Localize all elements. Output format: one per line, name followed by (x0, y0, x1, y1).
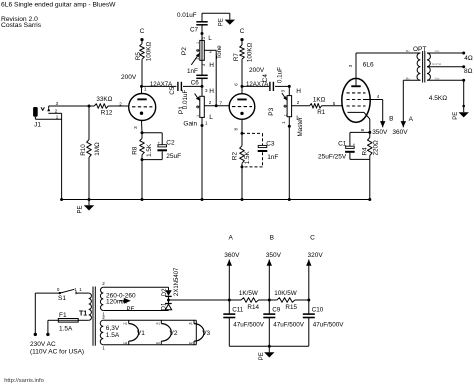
svg-text:B: B (270, 235, 274, 242)
svg-text:220Ω: 220Ω (373, 140, 380, 156)
svg-text:350V: 350V (372, 129, 388, 136)
svg-text:47uF/500V: 47uF/500V (313, 322, 345, 329)
svg-text:A: A (409, 116, 414, 123)
svg-text:3: 3 (196, 58, 200, 60)
svg-text:320V: 320V (308, 252, 324, 259)
svg-text:100KΩ: 100KΩ (145, 41, 152, 61)
svg-text:200V: 200V (121, 74, 137, 81)
svg-text:R4: R4 (362, 147, 369, 156)
svg-text:C2: C2 (166, 140, 175, 147)
svg-text:C7: C7 (190, 27, 199, 34)
svg-text:R1: R1 (317, 109, 326, 116)
svg-text:C: C (240, 28, 245, 35)
svg-text:25uF/25V: 25uF/25V (318, 153, 347, 160)
svg-text:1.5A: 1.5A (106, 332, 120, 339)
svg-text:Grn/Yel: Grn/Yel (432, 62, 442, 66)
svg-text:C3: C3 (266, 141, 275, 148)
svg-text:C11: C11 (232, 306, 244, 313)
svg-text:Grn: Grn (435, 49, 440, 53)
svg-text:4Ω: 4Ω (464, 55, 473, 62)
svg-text:25uF: 25uF (166, 153, 181, 160)
svg-text:V1: V1 (137, 330, 145, 337)
svg-text:C5: C5 (169, 86, 176, 95)
svg-text:B: B (389, 115, 393, 122)
svg-text:H1: H1 (189, 321, 193, 325)
svg-text:1KΩ: 1KΩ (313, 97, 326, 104)
svg-text:http://sarris.info: http://sarris.info (4, 378, 44, 384)
svg-text:4.5KΩ: 4.5KΩ (429, 95, 447, 102)
svg-text:R10: R10 (80, 144, 87, 156)
svg-text:(110V AC for USA): (110V AC for USA) (30, 348, 84, 355)
svg-text:6L6: 6L6 (363, 61, 374, 68)
svg-text:S1: S1 (58, 295, 66, 302)
svg-text:R12: R12 (101, 110, 113, 117)
svg-text:C: C (310, 235, 315, 242)
svg-text:R2: R2 (231, 152, 238, 161)
svg-text:2X1N5407: 2X1N5407 (174, 267, 180, 296)
svg-text:360V: 360V (224, 252, 240, 259)
svg-text:230V AC: 230V AC (30, 341, 56, 348)
svg-text:47uF/500V: 47uF/500V (273, 322, 305, 329)
svg-text:H: H (296, 88, 301, 95)
svg-text:6L6 Single ended guitar amp -: 6L6 Single ended guitar amp - BluesW (1, 1, 116, 8)
svg-text:1: 1 (196, 42, 200, 44)
svg-text:T1: T1 (79, 310, 87, 317)
svg-text:C: C (140, 28, 145, 35)
svg-text:C4: C4 (262, 74, 269, 83)
svg-text:1: 1 (196, 115, 200, 117)
svg-text:33KΩ: 33KΩ (96, 96, 112, 103)
svg-text:R7: R7 (233, 53, 240, 62)
svg-text:R14: R14 (247, 304, 259, 311)
svg-text:1: 1 (284, 114, 288, 116)
svg-text:Tone: Tone (216, 45, 223, 59)
svg-text:1K/5W: 1K/5W (239, 290, 258, 297)
svg-text:100KΩ: 100KΩ (246, 42, 253, 62)
svg-text:P3: P3 (268, 107, 275, 115)
svg-text:H: H (209, 88, 214, 95)
svg-text:V2: V2 (170, 330, 178, 337)
svg-text:47uF/500V: 47uF/500V (233, 322, 265, 329)
svg-text:L: L (209, 114, 213, 121)
svg-text:H2: H2 (156, 341, 160, 345)
svg-text:200V: 200V (249, 67, 265, 74)
svg-text:F1: F1 (59, 312, 67, 319)
svg-text:1.5K: 1.5K (244, 150, 251, 164)
svg-text:L: L (296, 115, 300, 122)
svg-text:H2: H2 (189, 341, 193, 345)
svg-text:1nF: 1nF (267, 154, 278, 161)
svg-text:PE: PE (127, 307, 135, 313)
svg-text:H1: H1 (124, 321, 128, 325)
svg-text:PE: PE (219, 18, 225, 26)
svg-text:P1: P1 (178, 106, 185, 114)
svg-text:360V: 360V (392, 129, 408, 136)
svg-text:3: 3 (284, 97, 288, 99)
svg-text:8Ω: 8Ω (464, 68, 473, 75)
svg-text:Blu: Blu (406, 49, 410, 53)
svg-text:1MΩ: 1MΩ (94, 142, 101, 156)
svg-text:Gain: Gain (183, 121, 197, 128)
svg-text:D1: D1 (162, 302, 168, 310)
svg-text:J1: J1 (34, 121, 41, 128)
svg-text:PE: PE (259, 352, 265, 360)
svg-text:C10: C10 (312, 306, 324, 313)
svg-text:6,3V: 6,3V (106, 325, 120, 332)
svg-text:1nF: 1nF (187, 68, 198, 75)
svg-text:1.5K: 1.5K (146, 143, 153, 157)
svg-text:C6: C6 (191, 80, 200, 87)
svg-text:H1: H1 (156, 321, 160, 325)
svg-text:H: H (209, 62, 214, 69)
svg-text:1.5A: 1.5A (59, 325, 73, 332)
svg-text:P2: P2 (181, 47, 188, 55)
svg-text:C9: C9 (272, 306, 281, 313)
svg-text:H2: H2 (124, 341, 128, 345)
svg-text:350V: 350V (266, 252, 282, 259)
svg-text:L: L (208, 35, 212, 42)
svg-text:Grn: Grn (435, 77, 440, 81)
svg-text:C1: C1 (338, 140, 347, 147)
svg-text:PE: PE (453, 112, 459, 120)
svg-text:R8: R8 (132, 146, 139, 155)
svg-text:A: A (229, 235, 234, 242)
svg-text:PE: PE (78, 205, 84, 213)
svg-text:R5: R5 (135, 52, 142, 61)
svg-text:D2: D2 (162, 288, 168, 296)
svg-text:Costas Sarris: Costas Sarris (1, 22, 42, 29)
svg-text:10K/5W: 10K/5W (274, 290, 296, 297)
svg-text:0.1uF: 0.1uF (276, 67, 283, 83)
svg-text:V3: V3 (202, 330, 210, 337)
svg-text:0.01uF: 0.01uF (177, 12, 197, 19)
svg-text:R15: R15 (285, 304, 297, 311)
svg-text:3: 3 (196, 98, 200, 100)
